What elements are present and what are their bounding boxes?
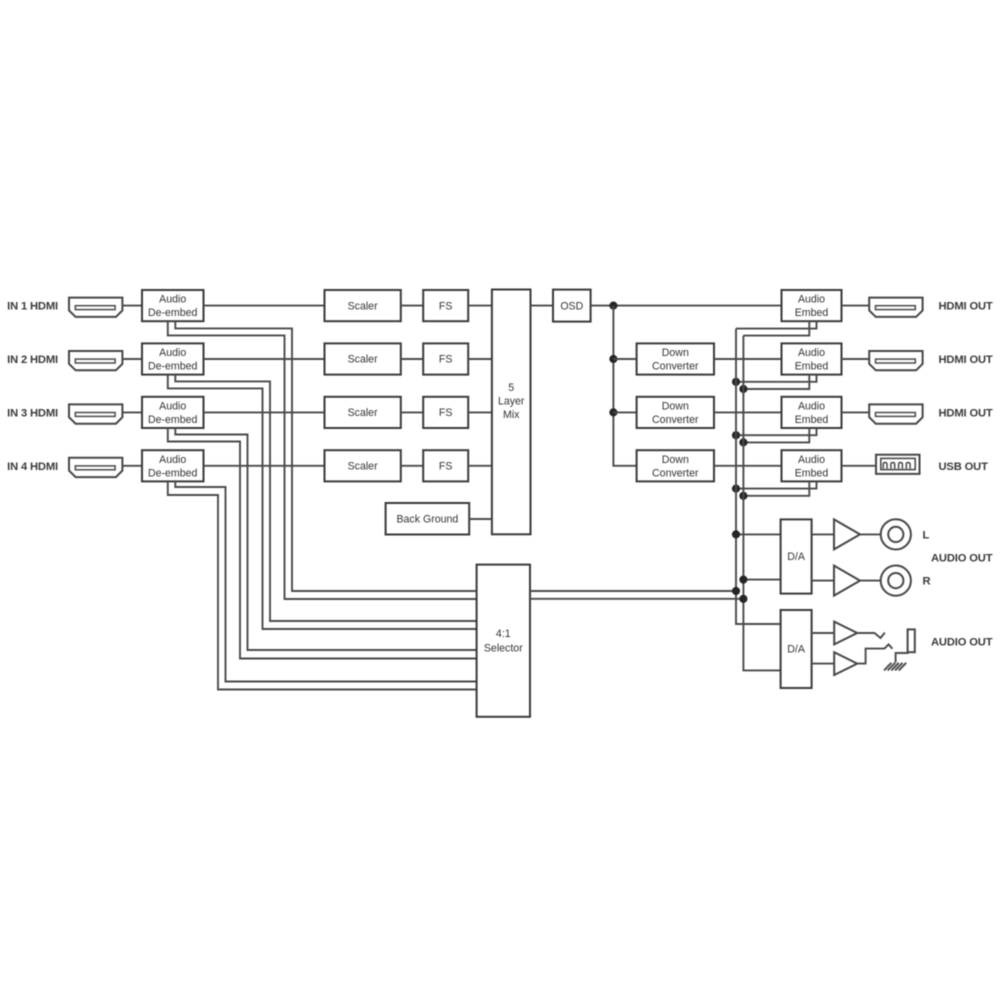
HDMI input connector J3 bbox=[69, 404, 122, 423]
wire amp L to RCA L bbox=[860, 533, 881, 535]
wire FS to 5-layer-mix row 2 bbox=[468, 358, 492, 360]
wire FS to 5-layer-mix row 1 bbox=[468, 305, 492, 307]
Audio Embed block row 3 bbox=[782, 397, 842, 428]
5 Layer Mix block bbox=[492, 290, 531, 535]
Audio De-embed block row 1 bbox=[142, 290, 204, 321]
wire de-embed 4 audio R to selector input 7 bbox=[175, 481, 476, 681]
svg-text:Audio: Audio bbox=[798, 347, 825, 359]
node bus B tap embed 3 bbox=[739, 438, 747, 446]
node bus A tap embed 3 bbox=[732, 431, 740, 439]
Scaler block row 2 bbox=[325, 343, 401, 374]
node video tap row 3 bbox=[609, 408, 617, 416]
wire de-embed to scaler row 1 bbox=[204, 305, 325, 307]
wire main video bus vertical bbox=[613, 306, 636, 466]
headphone jack plug bbox=[908, 629, 915, 652]
svg-text:R: R bbox=[923, 576, 931, 588]
svg-text:De-embed: De-embed bbox=[148, 467, 198, 479]
wire mix to OSD bbox=[531, 305, 554, 307]
svg-text:FS: FS bbox=[439, 354, 453, 366]
wire scaler to FS row 2 bbox=[401, 358, 423, 360]
svg-text:Audio: Audio bbox=[159, 294, 186, 306]
Down Converter block 2 bbox=[637, 397, 714, 428]
wire de-embed 2 audio L to selector input 4 bbox=[168, 375, 477, 629]
Scaler block row 4 bbox=[325, 450, 401, 481]
svg-text:Down: Down bbox=[662, 347, 689, 359]
wire video tap to down converter 1 bbox=[613, 358, 636, 360]
wire audio bus A to embed 1 bbox=[736, 321, 817, 328]
wire amp ring to jack contact bbox=[857, 644, 892, 663]
node main video junction bbox=[609, 302, 617, 310]
wire de-embed to scaler row 4 bbox=[204, 465, 325, 467]
USB output connector bbox=[876, 455, 920, 474]
svg-text:AUDIO OUT: AUDIO OUT bbox=[931, 637, 993, 649]
wire audio bus B to embed 4 bbox=[743, 481, 809, 495]
svg-text:Converter: Converter bbox=[652, 467, 699, 479]
wire selector output upper to bus A bbox=[530, 590, 736, 592]
svg-text:Mix: Mix bbox=[503, 409, 520, 421]
svg-text:HDMI OUT: HDMI OUT bbox=[939, 354, 993, 366]
svg-text:Scaler: Scaler bbox=[348, 300, 378, 312]
wire J2 to de-embed bbox=[122, 358, 142, 360]
svg-text:4:1: 4:1 bbox=[496, 628, 511, 640]
FS block row 4 bbox=[423, 450, 468, 481]
wire back ground to 5-layer-mix bbox=[469, 518, 492, 520]
svg-text:Audio: Audio bbox=[159, 347, 186, 359]
svg-text:L: L bbox=[923, 530, 930, 542]
wire J1 to de-embed bbox=[122, 305, 142, 307]
D/A converter 1 bbox=[781, 519, 812, 593]
Audio De-embed block row 3 bbox=[142, 397, 204, 428]
wire D/A 2 to amp tip bbox=[812, 632, 835, 634]
FS block row 2 bbox=[423, 343, 468, 374]
wire D/A 1 to amp R bbox=[812, 580, 834, 582]
wire audio bus B (right) bbox=[743, 336, 780, 671]
svg-text:Scaler: Scaler bbox=[348, 354, 378, 366]
Scaler block row 3 bbox=[325, 397, 401, 428]
wire embed to HDMI out 1 bbox=[842, 305, 870, 307]
wire J4 to de-embed bbox=[122, 465, 142, 467]
svg-text:HDMI OUT: HDMI OUT bbox=[939, 301, 993, 313]
node bus A tap embed 2 bbox=[732, 378, 740, 386]
Audio De-embed block row 2 bbox=[142, 343, 204, 374]
wire de-embed 3 audio L to selector input 6 bbox=[168, 428, 477, 659]
node bus A selector tap bbox=[732, 587, 740, 595]
amplifier tip bbox=[834, 622, 857, 645]
wire embed to HDMI out 3 bbox=[842, 411, 870, 413]
Audio Embed block row 1 bbox=[782, 290, 842, 321]
svg-text:Audio: Audio bbox=[798, 454, 825, 466]
Audio De-embed block row 4 bbox=[142, 450, 204, 481]
amplifier R bbox=[834, 566, 860, 596]
svg-text:D/A: D/A bbox=[787, 644, 806, 656]
node bus B selector tap bbox=[739, 595, 747, 603]
node bus B tap embed 4 bbox=[739, 492, 747, 500]
HDMI output connector 2 bbox=[869, 351, 922, 370]
svg-text:Back Ground: Back Ground bbox=[396, 514, 458, 526]
svg-text:Selector: Selector bbox=[484, 643, 523, 655]
wire video tap to down converter 2 bbox=[613, 411, 636, 413]
D/A converter 2 bbox=[781, 610, 812, 688]
svg-text:Embed: Embed bbox=[795, 467, 829, 479]
svg-text:Scaler: Scaler bbox=[348, 461, 378, 473]
svg-text:AUDIO OUT: AUDIO OUT bbox=[931, 553, 993, 565]
OSD block bbox=[553, 290, 591, 322]
svg-text:Layer: Layer bbox=[498, 395, 525, 407]
RCA connector R bbox=[881, 566, 911, 596]
svg-text:De-embed: De-embed bbox=[148, 414, 198, 426]
HDMI input connector J4 bbox=[69, 458, 122, 477]
wire amp R to RCA R bbox=[860, 580, 881, 582]
wire audio bus B to embed 3 bbox=[743, 428, 809, 442]
svg-text:Scaler: Scaler bbox=[348, 407, 378, 419]
node bus B D/A tap bbox=[739, 576, 747, 584]
wire FS to 5-layer-mix row 3 bbox=[468, 411, 492, 413]
wire down converter 1 to audio embed bbox=[714, 358, 782, 360]
wire jack sleeve to ground bbox=[896, 652, 908, 662]
FS block row 3 bbox=[423, 397, 468, 428]
wire D/A 2 to amp ring bbox=[812, 663, 835, 665]
4:1 Selector block bbox=[477, 565, 530, 717]
svg-text:De-embed: De-embed bbox=[148, 361, 198, 373]
wire de-embed 1 audio R to selector input 1 bbox=[175, 321, 476, 591]
wire de-embed 1 audio L to selector input 2 bbox=[168, 321, 477, 599]
wire audio bus B to embed 2 bbox=[743, 375, 809, 389]
wire J3 to de-embed bbox=[122, 411, 142, 413]
Scaler block row 1 bbox=[325, 290, 401, 321]
svg-text:Embed: Embed bbox=[795, 307, 829, 319]
wire de-embed to scaler row 3 bbox=[204, 411, 325, 413]
svg-text:Embed: Embed bbox=[795, 414, 829, 426]
svg-text:D/A: D/A bbox=[787, 551, 806, 563]
wire audio bus A to embed 3 bbox=[736, 428, 817, 435]
amplifier L bbox=[834, 519, 860, 549]
node bus A D/A tap bbox=[732, 530, 740, 538]
wire scaler to FS row 1 bbox=[401, 305, 423, 307]
svg-text:Audio: Audio bbox=[798, 294, 825, 306]
wire bus B to D/A 1 bbox=[743, 579, 780, 581]
svg-text:FS: FS bbox=[439, 407, 453, 419]
svg-text:Embed: Embed bbox=[795, 361, 829, 373]
HDMI input connector J2 bbox=[69, 351, 122, 370]
HDMI output connector 1 bbox=[869, 298, 922, 317]
wire de-embed 3 audio R to selector input 5 bbox=[175, 428, 476, 650]
svg-text:IN 2 HDMI: IN 2 HDMI bbox=[7, 354, 58, 366]
wire FS to 5-layer-mix row 4 bbox=[468, 465, 492, 467]
wire audio bus B to embed 1 bbox=[743, 321, 809, 335]
wire bus A to D/A 1 bbox=[736, 533, 781, 535]
wire audio bus A (left) bbox=[736, 329, 781, 624]
wire selector output lower to bus B bbox=[530, 598, 743, 600]
wire amp tip to jack contact bbox=[857, 633, 885, 638]
HDMI output connector 3 bbox=[869, 404, 922, 423]
Audio Embed block row 2 bbox=[782, 343, 842, 374]
wire embed 4 to USB out bbox=[842, 465, 877, 467]
svg-text:IN 3 HDMI: IN 3 HDMI bbox=[7, 408, 58, 420]
Down Converter block 1 bbox=[637, 343, 714, 374]
Back Ground block bbox=[386, 503, 470, 535]
wire down converter 3 to audio embed bbox=[714, 465, 782, 467]
svg-text:De-embed: De-embed bbox=[148, 307, 198, 319]
wire D/A 1 to amp L bbox=[812, 533, 834, 535]
wire scaler to FS row 4 bbox=[401, 465, 423, 467]
node bus B tap embed 2 bbox=[739, 385, 747, 393]
svg-text:OSD: OSD bbox=[560, 300, 583, 312]
svg-text:5: 5 bbox=[508, 382, 514, 394]
svg-text:Audio: Audio bbox=[798, 400, 825, 412]
wire OSD to audio embed 1 bbox=[591, 305, 782, 307]
svg-text:FS: FS bbox=[439, 461, 453, 473]
Down Converter block 3 bbox=[637, 450, 714, 481]
svg-text:Converter: Converter bbox=[652, 414, 699, 426]
svg-text:USB OUT: USB OUT bbox=[939, 461, 989, 473]
wire down converter 2 to audio embed bbox=[714, 411, 782, 413]
svg-text:IN 1 HDMI: IN 1 HDMI bbox=[7, 301, 58, 313]
ground bbox=[884, 663, 906, 671]
wire embed to HDMI out 2 bbox=[842, 358, 870, 360]
node video tap row 2 bbox=[609, 355, 617, 363]
RCA connector L bbox=[881, 519, 911, 549]
svg-text:FS: FS bbox=[439, 300, 453, 312]
svg-text:Down: Down bbox=[662, 400, 689, 412]
wire audio bus A to embed 4 bbox=[736, 481, 817, 488]
FS block row 1 bbox=[423, 290, 468, 321]
wire scaler to FS row 3 bbox=[401, 411, 423, 413]
wire de-embed 4 audio L to selector input 8 bbox=[168, 481, 477, 689]
HDMI input connector J1 bbox=[69, 298, 122, 317]
svg-text:Converter: Converter bbox=[652, 361, 699, 373]
svg-text:HDMI OUT: HDMI OUT bbox=[939, 408, 993, 420]
amplifier ring bbox=[834, 652, 857, 675]
svg-text:Down: Down bbox=[662, 454, 689, 466]
wire de-embed to scaler row 2 bbox=[204, 358, 325, 360]
node bus A tap embed 4 bbox=[732, 485, 740, 493]
wire de-embed 2 audio R to selector input 3 bbox=[175, 375, 476, 621]
svg-text:Audio: Audio bbox=[159, 400, 186, 412]
svg-text:Audio: Audio bbox=[159, 454, 186, 466]
wire audio bus A to embed 2 bbox=[736, 375, 817, 382]
svg-text:IN 4 HDMI: IN 4 HDMI bbox=[7, 461, 58, 473]
Audio Embed block row 4 bbox=[782, 450, 842, 481]
